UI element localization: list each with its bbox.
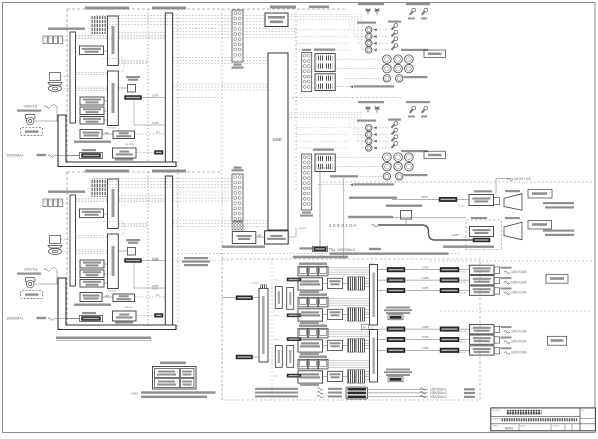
svg-text:RS-232C: RS-232C [458, 206, 466, 208]
svg-text:Dsub: Dsub [275, 339, 279, 341]
svg-text:100V10A: 100V10A [329, 223, 358, 228]
svg-text:100V10A: 100V10A [511, 291, 527, 295]
svg-text:PROJECT: PROJECT [492, 410, 501, 412]
svg-text:CAT5: CAT5 [422, 325, 429, 329]
svg-text:100V10A: 100V10A [511, 280, 527, 284]
svg-text:RS-2025: RS-2025 [125, 307, 134, 309]
svg-text:RS-232C: RS-232C [108, 128, 117, 130]
svg-text:RS-2320: RS-2320 [460, 282, 467, 284]
svg-text:100V10A: 100V10A [511, 351, 527, 355]
svg-text:CAT5: CAT5 [452, 233, 459, 237]
svg-text:100V10A: 100V10A [511, 340, 527, 344]
svg-text:RS-2025: RS-2025 [252, 283, 261, 285]
svg-text:Dsub: Dsub [275, 315, 279, 317]
svg-text:MIT: MIT [156, 295, 160, 297]
svg-text:CAT5: CAT5 [422, 265, 429, 269]
svg-text:DME: DME [273, 137, 283, 142]
svg-text:100V20A×1: 100V20A×1 [7, 154, 24, 158]
svg-text:RS-2320: RS-2320 [299, 228, 308, 230]
svg-text:DATE: DATE [521, 425, 526, 428]
svg-text:CAT5: CAT5 [421, 195, 428, 199]
svg-text:100V10A: 100V10A [511, 329, 527, 333]
svg-text:RS-2320: RS-2320 [460, 272, 467, 274]
svg-text:100V10A: 100V10A [514, 177, 531, 181]
svg-text:CAT5: CAT5 [152, 287, 159, 291]
svg-text:SCALE: SCALE [492, 425, 499, 428]
svg-text:RS-2320: RS-2320 [460, 331, 467, 333]
svg-text:100V1A: 100V1A [24, 268, 38, 272]
svg-text:MIDI: MIDI [132, 392, 138, 396]
svg-text:MIT: MIT [156, 132, 160, 134]
svg-text:100V20A×2: 100V20A×2 [430, 395, 447, 399]
svg-text:DESIGN: DESIGN [553, 426, 561, 428]
svg-text:RS-2320: RS-2320 [460, 352, 467, 354]
svg-text:DRAWING: DRAWING [492, 418, 501, 421]
svg-text:CAT5: CAT5 [152, 94, 159, 98]
svg-text:RS-2025: RS-2025 [125, 144, 134, 146]
svg-text:CAT5: CAT5 [422, 286, 429, 290]
svg-text:CAT5: CAT5 [422, 276, 429, 280]
svg-text:100V10A: 100V10A [511, 270, 527, 274]
svg-text:CAT5: CAT5 [422, 335, 429, 339]
svg-text:RS-2320: RS-2320 [460, 341, 467, 343]
svg-text:No.: No. [582, 410, 586, 412]
svg-text:CAT5: CAT5 [422, 346, 429, 350]
svg-text:100V1A: 100V1A [24, 105, 38, 109]
svg-text:CAT5: CAT5 [152, 258, 159, 262]
svg-text:MIT: MIT [105, 132, 110, 135]
svg-text:CAT5: CAT5 [152, 121, 159, 125]
svg-text:RS-2320: RS-2320 [460, 292, 467, 294]
svg-text:RS-232C: RS-232C [108, 291, 117, 293]
svg-text:Dsub: Dsub [275, 279, 279, 281]
svg-text:100V20A×1: 100V20A×1 [7, 317, 24, 321]
svg-text:MIT: MIT [105, 295, 110, 298]
svg-text:Dsub: Dsub [370, 327, 374, 329]
svg-text:100V20A×2: 100V20A×2 [337, 248, 355, 252]
svg-text:Dsub: Dsub [275, 376, 279, 378]
svg-text:Dsub: Dsub [370, 262, 374, 264]
svg-text:NON: NON [505, 426, 513, 430]
